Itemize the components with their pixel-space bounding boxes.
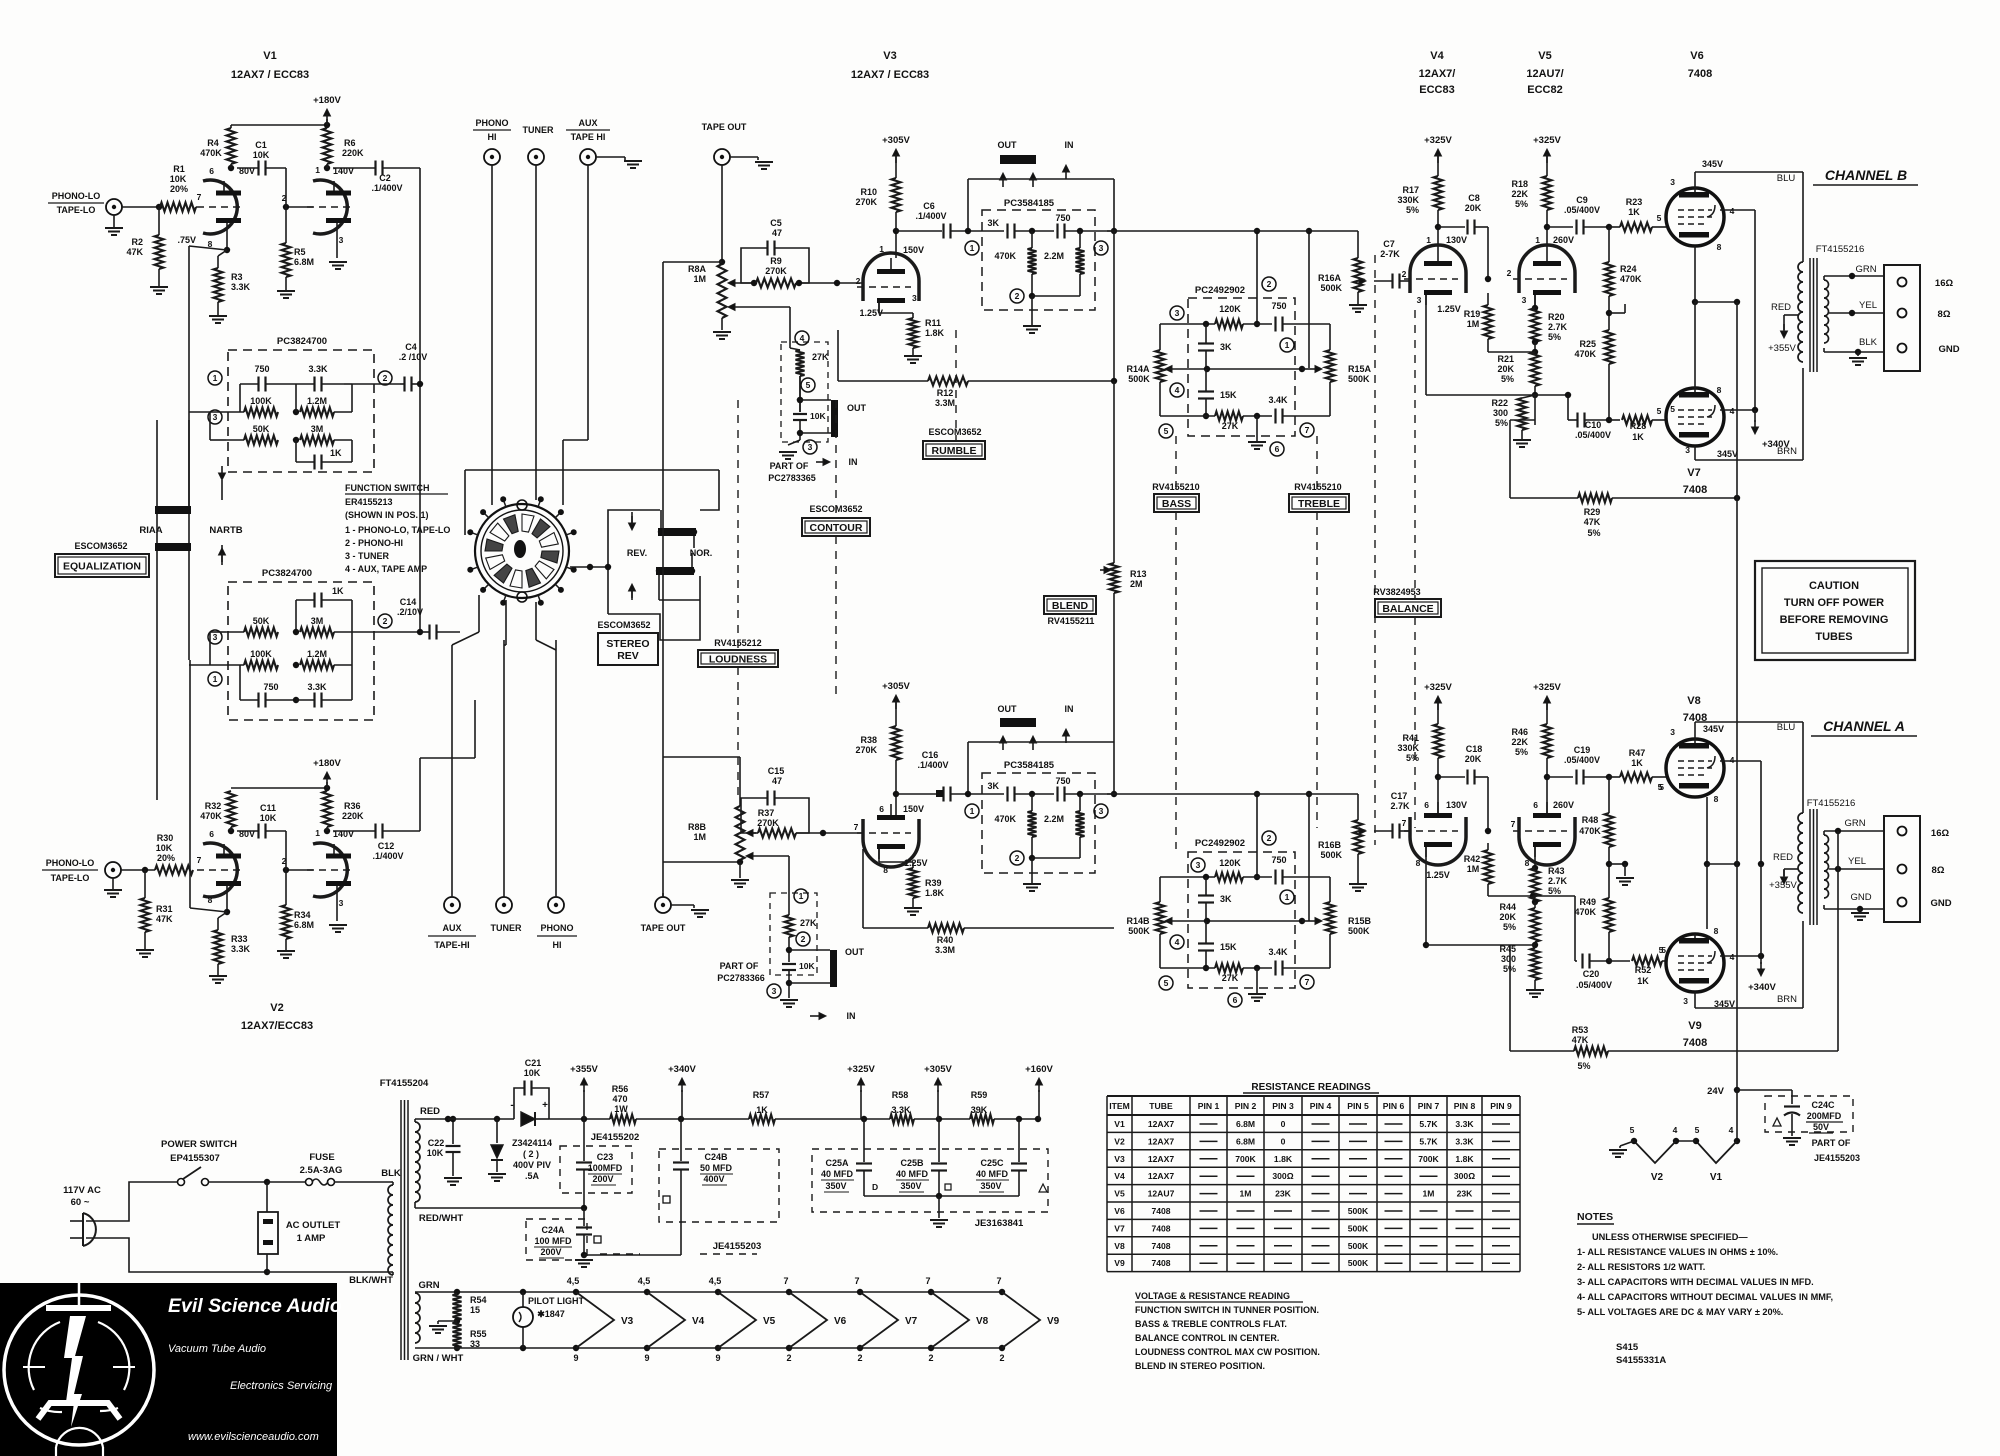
svg-text:39K: 39K [971, 1105, 988, 1115]
svg-text:GRN / WHT: GRN / WHT [413, 1353, 464, 1364]
svg-text:1K: 1K [1632, 432, 1644, 442]
svg-text:3M: 3M [311, 424, 324, 434]
ground R3 [217, 302, 219, 316]
resistor R6 220K [323, 128, 332, 164]
resistor R41 330K 5% [1437, 700, 1439, 724]
svg-text:V2: V2 [1114, 1136, 1125, 1146]
svg-text:3.3K: 3.3K [1455, 1136, 1474, 1146]
cathode V4a to ground bus [1425, 295, 1427, 395]
svg-text:470K: 470K [1574, 349, 1596, 359]
svg-text:3.4K: 3.4K [1268, 395, 1288, 405]
ground R48 node [1624, 864, 1626, 876]
svg-text:4: 4 [1175, 937, 1180, 947]
svg-text:330K: 330K [1397, 195, 1419, 205]
arrow IN upper [823, 459, 830, 466]
svg-text:R55: R55 [470, 1329, 487, 1339]
svg-text:4: 4 [1673, 1125, 1678, 1135]
dashed module PC2492902 lower [1188, 852, 1295, 988]
resistor 2.2M rumble upper [1079, 231, 1081, 248]
svg-text:15: 15 [470, 1305, 480, 1315]
svg-text:TUNER: TUNER [523, 125, 554, 135]
logo Evil Science Audio [0, 1283, 337, 1456]
svg-text:RV4155210: RV4155210 [1294, 482, 1341, 492]
wire bus treble to V4 upper [1330, 323, 1340, 325]
wire rumble lower out to bus [1107, 793, 1177, 795]
svg-text:470K: 470K [200, 148, 222, 158]
svg-text:3M: 3M [311, 616, 324, 626]
primary RED tap A [1784, 868, 1798, 870]
svg-text:350V: 350V [900, 1181, 921, 1191]
svg-text:TUNER: TUNER [491, 923, 522, 933]
svg-text:V2: V2 [270, 1002, 283, 1014]
ground input jack [113, 215, 115, 228]
svg-text:22K: 22K [1511, 737, 1528, 747]
svg-text:150V: 150V [903, 804, 924, 814]
feedback line to EQ [189, 246, 227, 250]
svg-text:V6: V6 [1690, 50, 1703, 62]
svg-text:RV3824953: RV3824953 [1373, 587, 1420, 597]
wires eq upper to bus [189, 411, 226, 413]
svg-text:V7: V7 [1687, 467, 1700, 479]
svg-text:PIN 9: PIN 9 [1490, 1101, 1512, 1111]
svg-text:PC3824700: PC3824700 [277, 336, 327, 347]
capacitor C16 .1/400V [896, 793, 942, 795]
svg-text:IN: IN [1065, 704, 1074, 714]
rectifier diode Z3424114 series [448, 1118, 514, 1120]
resistor R24 470K [1608, 227, 1610, 262]
svg-text:R44: R44 [1499, 902, 1516, 912]
svg-text:C25A: C25A [825, 1158, 849, 1168]
svg-text:TAPE-HI: TAPE-HI [434, 940, 469, 950]
capacitor 750 bass upper [1274, 317, 1276, 332]
svg-text:+325V: +325V [1424, 682, 1452, 693]
svg-text:5: 5 [1659, 782, 1664, 792]
dashed link loudness [737, 400, 739, 650]
capacitor C18 20K [1438, 776, 1465, 778]
svg-text:JE3163841: JE3163841 [975, 1218, 1024, 1229]
svg-text:V8: V8 [1687, 695, 1700, 707]
svg-text:1.8K: 1.8K [925, 888, 945, 898]
svg-text:2: 2 [383, 373, 388, 383]
svg-text:7: 7 [1305, 977, 1310, 987]
svg-text:12AX7: 12AX7 [1148, 1171, 1174, 1181]
ground C22 [444, 1177, 462, 1179]
node circled 2 loudness lower [796, 932, 810, 946]
svg-text:2: 2 [856, 276, 861, 286]
svg-text:JE4155203: JE4155203 [1814, 1153, 1860, 1163]
wire into bass lower [1256, 794, 1258, 877]
svg-text:R42: R42 [1464, 854, 1481, 864]
svg-text:5: 5 [1657, 406, 1662, 416]
resistor R3 3.3K [218, 250, 227, 256]
svg-text:JE4155202: JE4155202 [591, 1132, 640, 1143]
svg-text:4,5: 4,5 [638, 1276, 651, 1286]
svg-text:RIAA: RIAA [139, 525, 162, 536]
node R48 R49 [1608, 847, 1610, 898]
svg-text:12AX7 / ECC83: 12AX7 / ECC83 [851, 69, 929, 81]
svg-text:20K: 20K [1499, 912, 1516, 922]
svg-text:47K: 47K [1572, 1035, 1589, 1045]
svg-text:8Ω: 8Ω [1938, 309, 1951, 320]
tape out bus vertical [662, 262, 664, 897]
node circled 6 bass lower [1228, 993, 1242, 1007]
svg-text:27K: 27K [800, 918, 817, 928]
svg-text:470: 470 [612, 1094, 627, 1104]
svg-text:3: 3 [339, 898, 344, 908]
wire aux down [587, 165, 589, 440]
svg-text:R11: R11 [925, 318, 941, 328]
node circled 4 bass upper [1170, 383, 1184, 397]
svg-text:7408: 7408 [1151, 1241, 1170, 1251]
svg-text:TREBLE: TREBLE [1298, 498, 1340, 510]
svg-text:20K: 20K [1465, 203, 1482, 213]
heater V8 [928, 1289, 934, 1295]
svg-text:V5: V5 [763, 1316, 776, 1327]
wire R19 R20 junction [1532, 339, 1538, 345]
cathode V8 down [1706, 797, 1708, 864]
svg-text:.1/400V: .1/400V [372, 851, 403, 861]
bass lower row2 wire [1168, 920, 1302, 922]
resistor R22 300 5% [1425, 395, 1427, 400]
svg-text:R21: R21 [1497, 354, 1514, 364]
svg-text:R32: R32 [205, 801, 222, 811]
output tube V7 [1666, 388, 1724, 446]
capacitor C2 .1/400V [333, 167, 375, 169]
svg-text:3: 3 [772, 986, 777, 996]
feedback left connection A [1509, 945, 1511, 1051]
triode V3a [863, 253, 919, 301]
ground R16A [1357, 292, 1359, 305]
dashed link balance [1414, 310, 1416, 599]
svg-text:3.3K: 3.3K [307, 682, 327, 692]
junction R42 R43 [1532, 899, 1538, 905]
node circled 2 bass upper [1262, 277, 1276, 291]
svg-text:470K: 470K [994, 814, 1016, 824]
svg-text:CAUTION: CAUTION [1809, 580, 1859, 592]
eq lower resistor 100K [244, 661, 278, 670]
svg-text:R33: R33 [231, 934, 248, 944]
svg-text:BLU: BLU [1777, 722, 1796, 733]
svg-text:R43: R43 [1548, 866, 1565, 876]
svg-text:C19: C19 [1574, 745, 1591, 755]
svg-text:R5: R5 [294, 247, 306, 257]
svg-text:R8A: R8A [688, 264, 707, 274]
ground diode 2 [488, 1173, 506, 1175]
svg-text:R40: R40 [937, 935, 954, 945]
svg-text:R52: R52 [1635, 965, 1652, 975]
svg-text:R36: R36 [344, 801, 361, 811]
svg-text:3K: 3K [987, 781, 999, 791]
bus to R16B [1257, 793, 1358, 795]
svg-text:4: 4 [1729, 1125, 1734, 1135]
svg-text:2.2M: 2.2M [1044, 251, 1064, 261]
node V4a plate [1437, 210, 1439, 250]
secondary GRN lead [1823, 276, 1825, 280]
resistor R42 1M [1487, 843, 1489, 850]
svg-text:C24A: C24A [541, 1225, 565, 1235]
svg-text:R3: R3 [231, 272, 243, 282]
svg-text:8Ω: 8Ω [1932, 865, 1945, 876]
svg-text:PIN 5: PIN 5 [1347, 1101, 1369, 1111]
wire aux to ground [596, 156, 625, 158]
resistor R11 1.8K [878, 303, 880, 313]
svg-text:PC3584185: PC3584185 [1004, 760, 1055, 771]
main wire through rumble lower [968, 793, 1004, 795]
pot R15A 500K [1329, 324, 1331, 350]
svg-text:3 - TUNER: 3 - TUNER [345, 551, 390, 561]
pot R16A 500K [1354, 258, 1363, 292]
svg-text:R14B: R14B [1126, 916, 1150, 926]
svg-text:C14: C14 [400, 597, 417, 607]
resistor R12 3.3M feedback [837, 330, 839, 381]
triode V4a [1410, 245, 1466, 293]
capacitor C25B 40MFD 350V [938, 1119, 940, 1162]
svg-text:LOUDNESS CONTROL MAX CW POSITI: LOUDNESS CONTROL MAX CW POSITION. [1135, 1347, 1320, 1357]
resistor R25 470K [1605, 330, 1614, 364]
common ground C25 [864, 1195, 1019, 1197]
resistor 27K loudness lower [785, 915, 794, 937]
capacitor 3.4K bass upper [1274, 409, 1276, 424]
resistor R36 220K [323, 791, 332, 827]
svg-text:117V AC: 117V AC [63, 1185, 101, 1196]
node circled 5 bass upper [1159, 424, 1173, 438]
dashed outline loudness lower [770, 893, 817, 975]
svg-text:300Ω: 300Ω [1272, 1171, 1293, 1181]
ground R11 [912, 348, 914, 356]
svg-text:Electronics Servicing: Electronics Servicing [230, 1380, 333, 1392]
svg-text:3: 3 [912, 293, 917, 303]
triode V5b [1519, 817, 1575, 865]
wire R20 node to R28 line [1535, 307, 1558, 309]
stereo reverse arrows [631, 512, 633, 528]
svg-text:47K: 47K [1584, 517, 1601, 527]
resistor R38 270K [895, 700, 897, 726]
svg-text:500K: 500K [1348, 1241, 1369, 1251]
svg-text:270K: 270K [855, 745, 877, 755]
dashed link bass [1175, 436, 1177, 494]
primary RED tap B [1784, 314, 1798, 316]
heater V5 [715, 1289, 721, 1295]
resistor R56 470 1W [610, 1115, 636, 1124]
ground rumble lower [1031, 858, 1033, 884]
svg-text:R59: R59 [971, 1090, 988, 1100]
svg-text:( 2 ): ( 2 ) [523, 1149, 539, 1159]
svg-text:OUT: OUT [847, 403, 867, 413]
svg-text:10K: 10K [170, 174, 187, 184]
svg-text:10K: 10K [253, 150, 270, 160]
node 1 circled upper [208, 371, 222, 385]
svg-text:2-7K: 2-7K [1380, 249, 1400, 259]
svg-text:500K: 500K [1348, 926, 1370, 936]
node circled 2 rumble upper [1010, 289, 1024, 303]
svg-text:AUX: AUX [578, 118, 597, 128]
stereo reverse contact bar upper [658, 528, 696, 536]
svg-text:R31: R31 [156, 904, 173, 914]
svg-text:6.8M: 6.8M [294, 920, 314, 930]
bus to R16A [1257, 230, 1358, 232]
svg-text:FUSE: FUSE [309, 1152, 334, 1163]
resistor 27K bass lower [1215, 964, 1243, 973]
svg-text:6: 6 [1424, 800, 1429, 810]
svg-text:R29: R29 [1584, 507, 1601, 517]
filter cap C24A dashed box [526, 1219, 587, 1260]
svg-text:1M: 1M [1467, 319, 1480, 329]
output tube V8 [1666, 739, 1724, 797]
svg-text:RUMBLE: RUMBLE [932, 445, 977, 457]
svg-text:4,5: 4,5 [709, 1276, 722, 1286]
svg-text:500K: 500K [1128, 374, 1150, 384]
AC outlet 1 AMP [258, 1212, 278, 1254]
resistor R10 270K [895, 155, 897, 178]
svg-text:+325V: +325V [1424, 135, 1452, 146]
svg-text:V8: V8 [976, 1316, 989, 1327]
stereo reverse contact bar lower [656, 567, 694, 575]
eq upper resistor 3M [300, 436, 334, 445]
svg-text:16Ω: 16Ω [1935, 278, 1954, 289]
svg-text:3: 3 [808, 442, 813, 452]
svg-text:R12: R12 [937, 388, 954, 398]
svg-text:7408: 7408 [1688, 68, 1712, 80]
svg-text:220K: 220K [342, 811, 364, 821]
capacitor C10 .05/400V [1535, 424, 1560, 426]
svg-text:2.7K: 2.7K [1548, 322, 1568, 332]
svg-text:+340V: +340V [1748, 982, 1776, 993]
svg-text:200MFD: 200MFD [1807, 1111, 1842, 1121]
ground R31 [144, 932, 146, 950]
svg-text:PIN 4: PIN 4 [1310, 1101, 1332, 1111]
svg-text:IN: IN [1065, 140, 1074, 150]
node V5a plate [1546, 210, 1548, 250]
svg-text:120K: 120K [1219, 858, 1241, 868]
svg-text:V6: V6 [1114, 1206, 1125, 1216]
svg-text:+325V: +325V [1533, 682, 1561, 693]
ground secondary A [1859, 909, 1861, 911]
control box EQUALIZATION [55, 554, 149, 577]
svg-text:TURN OFF POWER: TURN OFF POWER [1784, 597, 1884, 609]
eq upper resistor 100K [244, 408, 278, 417]
svg-text:R53: R53 [1572, 1025, 1589, 1035]
svg-text:R19: R19 [1464, 309, 1481, 319]
svg-text:750: 750 [1055, 776, 1070, 786]
output jack AUX TAPE-HI lower [444, 897, 460, 913]
node circled 2 rumble lower [1010, 851, 1024, 865]
diode 2 shunt [496, 1119, 498, 1143]
svg-text:C6: C6 [923, 201, 935, 211]
node circled 5 bass lower [1159, 976, 1173, 990]
svg-text:IN: IN [849, 457, 858, 467]
svg-text:EP4155307: EP4155307 [170, 1153, 220, 1164]
secondary GRN lead A [1823, 831, 1825, 835]
svg-text:GRN: GRN [418, 1280, 439, 1291]
svg-text:220K: 220K [342, 148, 364, 158]
ground R8B [739, 862, 741, 878]
node V1b plate pin1 [324, 165, 330, 171]
loudness tap wire B [746, 853, 753, 860]
svg-text:5%: 5% [1503, 922, 1516, 932]
wire main bus bass lower [1177, 793, 1257, 795]
svg-text:750: 750 [263, 682, 278, 692]
svg-text:PC2492902: PC2492902 [1195, 838, 1245, 849]
svg-text:R22: R22 [1491, 398, 1508, 408]
svg-text:7: 7 [854, 822, 859, 832]
svg-text:.75V: .75V [177, 235, 196, 245]
svg-text:2: 2 [1267, 279, 1272, 289]
capacitor 10K loudness upper [799, 376, 801, 412]
capacitor 750 rumble lower [1056, 787, 1058, 802]
svg-text:PART OF: PART OF [720, 961, 759, 971]
pilot light #1847 [520, 1289, 526, 1295]
svg-text:C15: C15 [768, 766, 785, 776]
capacitor 15K bass lower [1205, 921, 1207, 943]
dashed module PC2492902 upper [1188, 298, 1295, 436]
svg-text:R39: R39 [925, 878, 942, 888]
node V5b plate [1546, 758, 1548, 816]
wire aux lower up [451, 645, 453, 897]
svg-text:C4: C4 [405, 342, 417, 352]
svg-text:350V: 350V [980, 1181, 1001, 1191]
svg-text:JE4155203: JE4155203 [713, 1241, 762, 1252]
svg-text:V1: V1 [1114, 1119, 1125, 1129]
feedback wire channel A [1837, 831, 1839, 1051]
svg-text:4: 4 [1730, 952, 1735, 962]
svg-text:2: 2 [1267, 833, 1272, 843]
node 3 circled mid [208, 630, 222, 644]
capacitor 3K rumble lower [1006, 787, 1008, 802]
svg-text:BRN: BRN [1777, 994, 1797, 1005]
svg-text:47K: 47K [156, 914, 173, 924]
svg-text:20K: 20K [1465, 754, 1482, 764]
eq upper cap 3.3K [313, 377, 315, 392]
svg-text:1K: 1K [756, 1105, 768, 1115]
svg-text:+305V: +305V [924, 1064, 952, 1075]
svg-text:1.2M: 1.2M [307, 396, 327, 406]
resistor R9 270K [735, 282, 756, 284]
node circled 3 rumble upper [1094, 241, 1108, 255]
svg-text:V9: V9 [1047, 1316, 1060, 1327]
svg-text:470K: 470K [994, 251, 1016, 261]
svg-text:5%: 5% [1515, 747, 1528, 757]
node V1 plate pin6 [228, 165, 234, 171]
svg-text:+355V: +355V [1768, 343, 1796, 354]
resistor 27K bass upper [1215, 412, 1243, 421]
svg-text:1K: 1K [1637, 976, 1649, 986]
wire rotary to stereo switch [570, 566, 608, 568]
main wire through rumble upper [968, 230, 1004, 232]
svg-text:TAPE-LO: TAPE-LO [57, 205, 96, 215]
resistor R53 47K 5% feedback A [1510, 1050, 1574, 1052]
svg-text:R18: R18 [1511, 179, 1528, 189]
svg-text:2: 2 [1507, 268, 1512, 278]
svg-text:470K: 470K [200, 811, 222, 821]
svg-text:10K: 10K [799, 961, 815, 971]
svg-text:3: 3 [1683, 996, 1688, 1006]
capacitor 750 rumble upper [1056, 224, 1058, 239]
control box BASS [1154, 494, 1199, 512]
svg-text:1: 1 [1535, 235, 1540, 245]
svg-text:.05/400V: .05/400V [1575, 430, 1611, 440]
svg-text:8: 8 [883, 865, 888, 875]
wire bus down to blend [1113, 231, 1115, 381]
svg-text:ESCOM3652: ESCOM3652 [597, 620, 650, 630]
node circled 1 rumble lower [965, 804, 979, 818]
eq upper resistor 1.2M [300, 408, 334, 417]
ground R39 [912, 898, 914, 908]
wire R1 to V1a grid [196, 206, 197, 208]
svg-text:3.3K: 3.3K [891, 1105, 911, 1115]
svg-text:40 MFD: 40 MFD [896, 1169, 929, 1179]
control box RUMBLE [923, 441, 985, 459]
wire R37 to V3b grid [796, 832, 863, 834]
